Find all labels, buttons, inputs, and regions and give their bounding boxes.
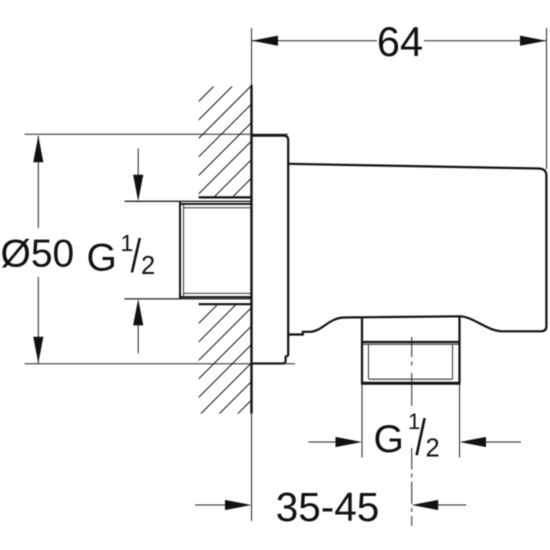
svg-text:1: 1 — [408, 409, 420, 434]
svg-text:G: G — [87, 237, 117, 280]
svg-text:G: G — [374, 418, 404, 461]
svg-text:2: 2 — [141, 252, 155, 280]
svg-text:35-45: 35-45 — [276, 484, 380, 530]
svg-text:1: 1 — [121, 230, 134, 256]
svg-text:64: 64 — [377, 18, 423, 65]
svg-text:2: 2 — [426, 434, 440, 462]
svg-text:Ø50: Ø50 — [1, 233, 75, 276]
